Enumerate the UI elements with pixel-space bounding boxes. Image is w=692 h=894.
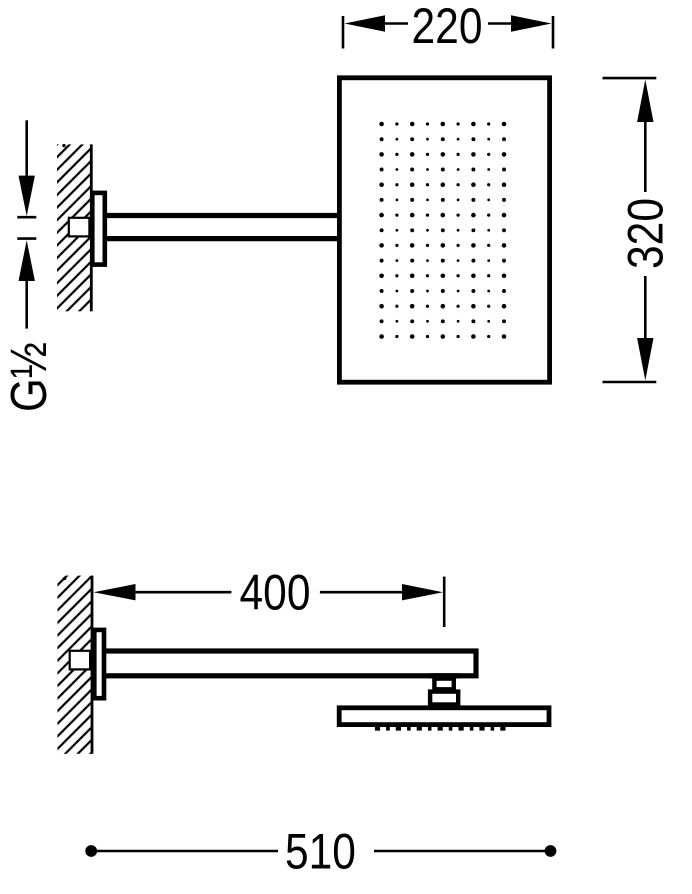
svg-text:220: 220 — [412, 0, 483, 54]
svg-text:320: 320 — [617, 198, 673, 269]
svg-text:510: 510 — [285, 823, 356, 879]
svg-text:400: 400 — [240, 564, 311, 620]
svg-text:G½: G½ — [1, 342, 58, 412]
